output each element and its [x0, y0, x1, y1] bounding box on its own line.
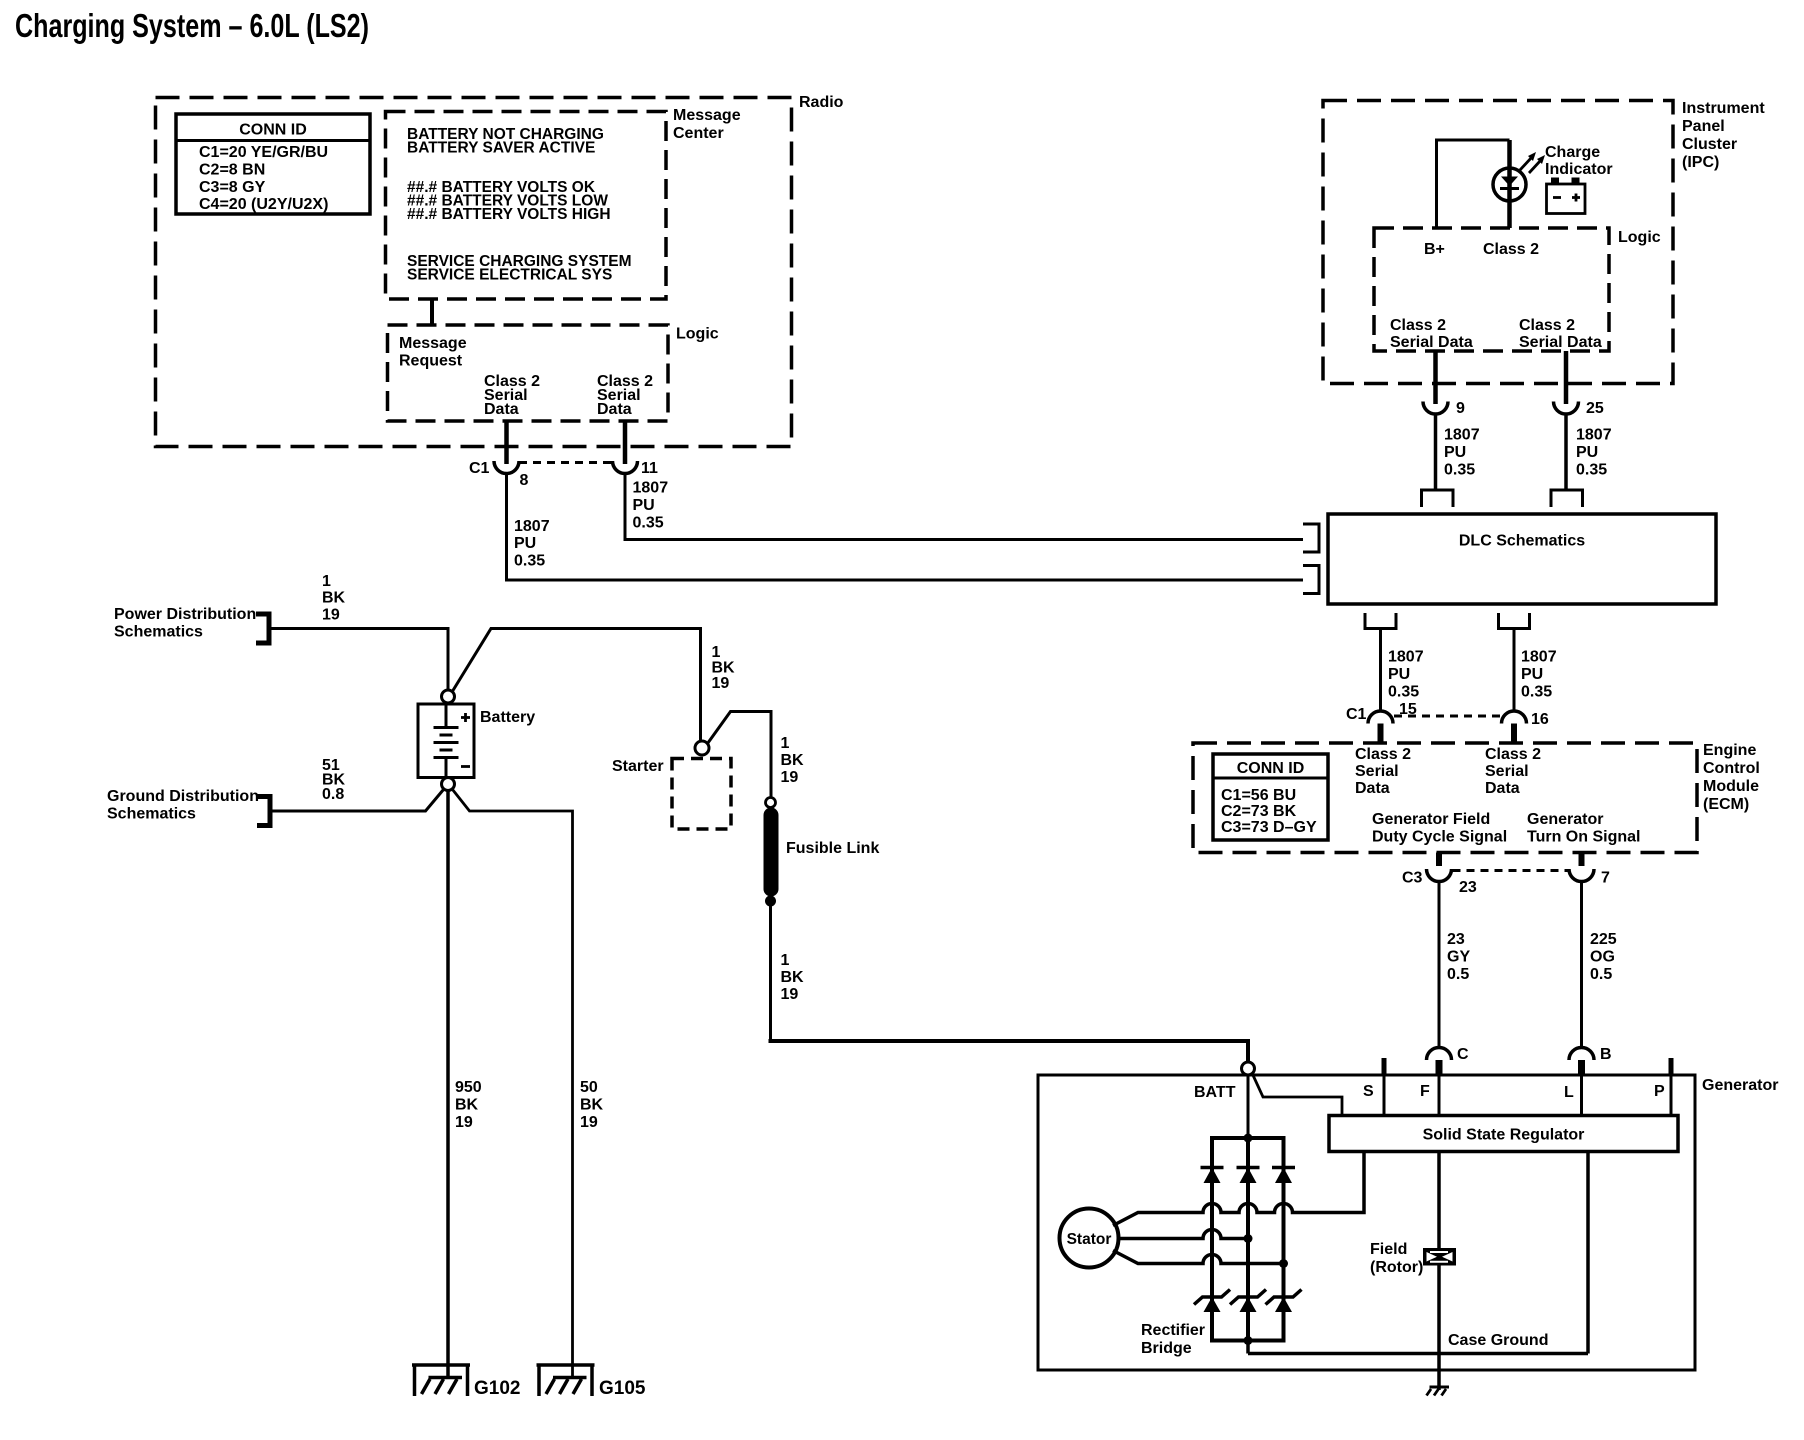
rectifier column 1 — [1210, 1138, 1214, 1341]
node battery negative circle — [442, 778, 455, 791]
module box Instrument Panel Cluster IPC (dashed) — [1323, 100, 1765, 384]
svg-text:50: 50 — [580, 1079, 598, 1096]
off-page bracket power distribution — [256, 612, 269, 646]
diode lower avalanche 3 — [1266, 1290, 1302, 1313]
svg-text:PU: PU — [1388, 666, 1410, 683]
label Generator Turn On Signal — [1527, 811, 1640, 846]
wire stub IPC pin 9 — [1433, 351, 1438, 404]
dashed connector link 8-11 — [519, 461, 612, 464]
wire 1807 PU 0.35 from pin 9 to DLC — [1436, 414, 1480, 490]
wire P into regulator — [1670, 1075, 1673, 1116]
svg-text:B: B — [1600, 1046, 1612, 1063]
svg-text:Battery: Battery — [480, 709, 535, 726]
svg-text:C3=73 D–GY: C3=73 D–GY — [1221, 819, 1317, 836]
label 1 BK 19 (battery feed lower) — [781, 952, 805, 1003]
svg-text:9: 9 — [1456, 400, 1465, 417]
svg-text:C1=20 YE/GR/BU: C1=20 YE/GR/BU — [199, 144, 328, 161]
wire 23 GY 0.5 — [1439, 882, 1470, 1048]
svg-text:Data: Data — [484, 401, 519, 418]
pin tab DLC bottom 2 — [1499, 613, 1530, 629]
svg-text:Charging System – 6.0L (LS2): Charging System – 6.0L (LS2) — [15, 7, 369, 44]
svg-text:25: 25 — [1586, 400, 1604, 417]
svg-text:Schematics: Schematics — [114, 624, 203, 641]
svg-text:SERVICE ELECTRICAL SYS: SERVICE ELECTRICAL SYS — [407, 267, 612, 284]
box Logic (Radio, dashed) — [388, 325, 719, 421]
wire stub ECM pin 7 — [1579, 853, 1585, 867]
wire stub IPC pin 25 — [1564, 351, 1569, 404]
svg-text:1: 1 — [781, 952, 790, 969]
rectifier column 2 — [1246, 1138, 1250, 1341]
svg-text:Rectifier: Rectifier — [1141, 1322, 1205, 1339]
module box Radio (dashed) — [156, 94, 844, 447]
svg-text:B+: B+ — [1424, 241, 1445, 258]
svg-text:Center: Center — [673, 125, 724, 142]
label 950 BK 19 — [455, 1079, 482, 1131]
svg-text:S: S — [1363, 1083, 1374, 1100]
connector pin 16 — [1502, 711, 1549, 728]
stator phase wire middle — [1119, 1230, 1249, 1239]
svg-text:Class 2: Class 2 — [1519, 317, 1575, 334]
rectifier column 3 — [1282, 1138, 1286, 1341]
svg-text:PU: PU — [633, 497, 655, 514]
svg-text:1807: 1807 — [633, 480, 669, 497]
svg-text:DLC Schematics: DLC Schematics — [1459, 533, 1585, 550]
wire battery feed from fusible link to BATT — [769, 901, 772, 1039]
svg-text:Serial Data: Serial Data — [1390, 334, 1473, 351]
svg-text:G105: G105 — [599, 1378, 646, 1399]
field rotor symbol — [1423, 1248, 1456, 1266]
diode upper 2 — [1237, 1168, 1260, 1184]
svg-text:0.35: 0.35 — [1521, 684, 1552, 701]
wire stub pin 15 to ECM — [1378, 724, 1384, 744]
svg-text:19: 19 — [781, 986, 799, 1003]
connector C3 pin 23 — [1402, 869, 1477, 896]
wire 1807 PU 0.35 from pin 8 to DLC — [507, 474, 1304, 581]
wire stub radio pin 8 — [504, 421, 509, 464]
connector C1 pin 8 — [469, 460, 529, 489]
svg-text:BATTERY SAVER ACTIVE: BATTERY SAVER ACTIVE — [407, 140, 595, 157]
charge indicator LED circle — [1493, 168, 1526, 201]
diode lower avalanche 1 — [1194, 1290, 1230, 1313]
svg-text:Stator: Stator — [1067, 1231, 1112, 1248]
wire case ground horizontal — [1248, 1352, 1588, 1356]
diode upper 1 — [1201, 1168, 1224, 1184]
svg-text:8: 8 — [520, 472, 529, 489]
svg-text:C1: C1 — [469, 460, 490, 477]
svg-text:OG: OG — [1590, 949, 1615, 966]
svg-text:Generator: Generator — [1527, 811, 1603, 828]
starter dashed box — [672, 759, 731, 830]
wire starter to fusible link — [708, 712, 772, 798]
connector C (generator F terminal) — [1427, 1046, 1470, 1063]
svg-text:PU: PU — [514, 535, 536, 552]
svg-text:CONN ID: CONN ID — [1237, 760, 1305, 777]
svg-text:0.35: 0.35 — [633, 515, 664, 532]
svg-text:Indicator: Indicator — [1545, 161, 1613, 178]
rectifier bottom rail — [1210, 1339, 1286, 1343]
wire stub pin 16 to ECM — [1511, 724, 1517, 744]
svg-text:Logic: Logic — [676, 326, 719, 343]
dashed connector link 15-16 — [1394, 715, 1501, 718]
svg-text:(Rotor): (Rotor) — [1370, 1259, 1423, 1276]
terminal stub F — [1436, 1060, 1443, 1075]
svg-text:C3: C3 — [1402, 870, 1423, 887]
svg-text:BK: BK — [781, 752, 805, 769]
svg-text:##.# BATTERY VOLTS HIGH: ##.# BATTERY VOLTS HIGH — [407, 206, 611, 223]
ground symbol G102 — [412, 1365, 520, 1399]
svg-text:Message: Message — [399, 335, 467, 352]
label 1 BK 19 (fusible upper) — [781, 735, 805, 786]
svg-text:Solid State Regulator: Solid State Regulator — [1423, 1127, 1585, 1144]
svg-text:C1: C1 — [1346, 706, 1367, 723]
label Rectifier Bridge — [1141, 1322, 1205, 1357]
stator circle — [1060, 1209, 1119, 1268]
table CONN ID (Radio) — [176, 114, 370, 214]
svg-text:19: 19 — [580, 1114, 598, 1131]
svg-text:Case Ground: Case Ground — [1448, 1332, 1548, 1349]
svg-text:1: 1 — [322, 573, 331, 590]
svg-text:CONN ID: CONN ID — [239, 122, 307, 139]
svg-text:PU: PU — [1444, 444, 1466, 461]
svg-text:Class 2: Class 2 — [1485, 746, 1541, 763]
junction dot top rail center — [1244, 1134, 1253, 1143]
svg-text:(ECM): (ECM) — [1703, 796, 1749, 813]
wire L into regulator — [1580, 1075, 1583, 1116]
charge indicator arrows — [1520, 144, 1613, 178]
wire stub ECM pin 23 — [1436, 853, 1442, 867]
svg-text:23: 23 — [1459, 879, 1477, 896]
svg-text:Generator Field: Generator Field — [1372, 811, 1490, 828]
svg-text:Logic: Logic — [1618, 229, 1661, 246]
svg-text:19: 19 — [712, 675, 730, 692]
wire 1807 PU 0.35 DLC to pin 15 — [1381, 629, 1424, 712]
pin tab DLC top 1 — [1422, 490, 1454, 507]
svg-text:Message: Message — [673, 107, 741, 124]
svg-text:G102: G102 — [474, 1378, 520, 1399]
svg-text:Class 2: Class 2 — [1355, 746, 1411, 763]
wire battery negative to G102 — [446, 791, 450, 1378]
wire BATT node to regulator — [1252, 1073, 1342, 1116]
dashed connector link 23-7 — [1453, 869, 1569, 872]
svg-text:Fusible Link: Fusible Link — [786, 840, 879, 857]
wire rectifier to case ground — [1246, 1341, 1250, 1354]
svg-text:Data: Data — [597, 401, 632, 418]
pin tab DLC bottom 1 — [1365, 613, 1396, 629]
svg-text:0.35: 0.35 — [514, 553, 545, 570]
pin tab DLC left 2 — [1303, 566, 1319, 594]
connector pin 9 — [1423, 400, 1465, 417]
svg-text:BATT: BATT — [1194, 1084, 1236, 1101]
svg-text:Starter: Starter — [612, 758, 664, 775]
box Logic (IPC, dashed) — [1374, 228, 1661, 351]
svg-text:P: P — [1654, 1083, 1665, 1100]
box Message Center (dashed) — [386, 107, 741, 299]
junction dot phase 2 — [1244, 1234, 1253, 1243]
diode lower avalanche 2 — [1230, 1290, 1266, 1313]
battery symbol — [418, 704, 535, 778]
junction dot bottom rail center — [1244, 1336, 1253, 1345]
stator phase wire bottom — [1113, 1251, 1284, 1264]
svg-text:BK: BK — [455, 1097, 479, 1114]
stator phase wire top — [1113, 1152, 1364, 1226]
svg-text:C4=20 (U2Y/U2X): C4=20 (U2Y/U2X) — [199, 196, 328, 213]
svg-text:PU: PU — [1521, 666, 1543, 683]
svg-text:1807: 1807 — [1388, 649, 1424, 666]
wire regulator to case ground (right) — [1586, 1152, 1590, 1354]
label Power Distribution Schematics — [114, 606, 256, 641]
svg-text:11: 11 — [641, 460, 658, 477]
connector pin 11 — [613, 460, 659, 477]
connector B (generator L terminal) — [1569, 1046, 1612, 1063]
svg-text:Instrument: Instrument — [1682, 100, 1765, 117]
svg-text:Radio: Radio — [799, 94, 844, 111]
svg-text:L: L — [1564, 1084, 1574, 1101]
svg-text:0.35: 0.35 — [1444, 462, 1475, 479]
wire power distribution to battery — [269, 629, 448, 691]
svg-text:Schematics: Schematics — [107, 806, 196, 823]
svg-text:Power Distribution: Power Distribution — [114, 606, 256, 623]
label Generator Field Duty Cycle Signal — [1372, 811, 1507, 846]
svg-text:Duty Cycle Signal: Duty Cycle Signal — [1372, 829, 1507, 846]
connector pin 25 — [1554, 400, 1604, 417]
svg-text:Data: Data — [1355, 780, 1390, 797]
diode upper 3 — [1272, 1168, 1295, 1184]
svg-text:0.5: 0.5 — [1590, 966, 1612, 983]
svg-text:0.35: 0.35 — [1576, 462, 1607, 479]
wire 1807 PU 0.35 from pin 25 to DLC — [1566, 414, 1612, 490]
svg-text:Class 2: Class 2 — [1390, 317, 1446, 334]
svg-text:16: 16 — [1531, 711, 1549, 728]
wire BATT node to rectifier top rail — [1247, 1075, 1250, 1138]
svg-text:Turn On Signal: Turn On Signal — [1527, 829, 1640, 846]
svg-text:0.35: 0.35 — [1388, 684, 1419, 701]
rectifier top rail — [1210, 1136, 1286, 1140]
svg-text:1807: 1807 — [514, 518, 550, 535]
svg-text:Serial: Serial — [1355, 763, 1399, 780]
svg-text:23: 23 — [1447, 931, 1465, 948]
svg-text:950: 950 — [455, 1079, 482, 1096]
terminal stub S — [1363, 1058, 1384, 1100]
svg-text:PU: PU — [1576, 444, 1598, 461]
svg-text:Panel: Panel — [1682, 118, 1725, 135]
svg-text:Module: Module — [1703, 778, 1759, 795]
svg-text:1807: 1807 — [1521, 649, 1557, 666]
wire 1807 PU 0.35 from pin 11 to DLC — [625, 474, 1303, 540]
svg-text:7: 7 — [1601, 870, 1610, 887]
svg-text:C2=73 BK: C2=73 BK — [1221, 803, 1297, 820]
off-page bracket ground distribution — [257, 794, 270, 828]
svg-text:Charge: Charge — [1545, 144, 1600, 161]
svg-text:1: 1 — [712, 644, 721, 661]
table CONN ID (ECM) — [1213, 754, 1328, 840]
wire F regulator to field rotor to case ground to ground — [1437, 1152, 1441, 1391]
label Class 2 Serial Data (ECM right) — [1485, 746, 1541, 797]
svg-text:BK: BK — [580, 1097, 604, 1114]
module box Generator — [1038, 1075, 1778, 1370]
label 50 BK 19 — [580, 1079, 604, 1131]
ground symbol G105 — [537, 1365, 646, 1399]
svg-text:BK: BK — [322, 590, 346, 607]
ground symbol case ground — [1427, 1387, 1450, 1396]
connector pin 7 — [1569, 869, 1610, 887]
label Field (Rotor) — [1370, 1241, 1423, 1276]
svg-text:C2=8 BN: C2=8 BN — [199, 162, 265, 179]
wire battery negative to G105 branch — [453, 790, 573, 1378]
svg-text:Data: Data — [1485, 780, 1520, 797]
svg-text:C: C — [1457, 1046, 1469, 1063]
label Ground Distribution Schematics — [107, 788, 259, 823]
svg-text:(IPC): (IPC) — [1682, 154, 1719, 171]
svg-text:225: 225 — [1590, 931, 1617, 948]
label 1 BK 19 (power feed) — [322, 573, 346, 624]
svg-text:Request: Request — [399, 353, 463, 370]
wire B+ branch in IPC — [1437, 140, 1510, 228]
svg-text:Control: Control — [1703, 760, 1760, 777]
svg-text:0.5: 0.5 — [1447, 966, 1469, 983]
svg-text:BK: BK — [712, 660, 736, 677]
battery icon IPC — [1547, 178, 1586, 214]
node starter terminal circle — [695, 741, 709, 755]
svg-text:1: 1 — [781, 735, 790, 752]
junction dot phase 3 — [1279, 1259, 1288, 1268]
svg-text:19: 19 — [455, 1114, 473, 1131]
wire battery node diagonal to starter feed — [452, 629, 701, 742]
wire S to regulator — [1383, 1075, 1386, 1116]
pin tab DLC top 2 — [1551, 490, 1583, 507]
wire 225 OG 0.5 — [1582, 882, 1617, 1048]
svg-text:0.8: 0.8 — [322, 786, 344, 803]
terminal stub L — [1578, 1060, 1585, 1075]
pin tab DLC left 1 — [1303, 524, 1319, 552]
box Solid State Regulator — [1329, 1116, 1678, 1152]
svg-text:Serial: Serial — [1485, 763, 1529, 780]
svg-text:Class 2: Class 2 — [1483, 241, 1539, 258]
wire ground distribution to battery — [270, 790, 444, 812]
svg-text:1807: 1807 — [1576, 427, 1612, 444]
connector C1 pin 15 — [1346, 701, 1417, 724]
label Class 2 Serial Data (ECM left) — [1355, 746, 1411, 797]
svg-text:Bridge: Bridge — [1141, 1340, 1192, 1357]
svg-text:BK: BK — [781, 969, 805, 986]
svg-text:Engine: Engine — [1703, 742, 1756, 759]
label 51 BK 0.8 — [322, 757, 346, 803]
label 1 BK 19 (starter branch) — [712, 644, 736, 692]
node BATT terminal circle — [1194, 1062, 1255, 1101]
svg-text:1807: 1807 — [1444, 427, 1480, 444]
wire charge indicator vertical — [1507, 140, 1512, 228]
svg-text:19: 19 — [781, 769, 799, 786]
svg-text:Cluster: Cluster — [1682, 136, 1737, 153]
module box Engine Control Module ECM (dashed) — [1193, 742, 1760, 853]
svg-text:F: F — [1420, 1083, 1430, 1100]
wire 1807 PU 0.35 DLC to pin 16 — [1514, 629, 1557, 712]
node battery positive circle — [442, 690, 455, 703]
svg-text:Field: Field — [1370, 1241, 1407, 1258]
svg-text:Generator: Generator — [1702, 1077, 1778, 1094]
terminal stub P — [1654, 1058, 1671, 1100]
fusible link — [765, 798, 879, 907]
svg-text:Serial Data: Serial Data — [1519, 334, 1602, 351]
wire F into regulator — [1438, 1075, 1441, 1116]
svg-text:GY: GY — [1447, 949, 1470, 966]
wire Message Center to Logic — [430, 299, 434, 325]
svg-text:19: 19 — [322, 607, 340, 624]
module box DLC Schematics — [1328, 514, 1716, 604]
svg-text:C1=56 BU: C1=56 BU — [1221, 787, 1296, 804]
svg-text:Ground Distribution: Ground Distribution — [107, 788, 259, 805]
svg-text:C3=8 GY: C3=8 GY — [199, 179, 266, 196]
wire stub radio pin 11 — [623, 421, 628, 464]
